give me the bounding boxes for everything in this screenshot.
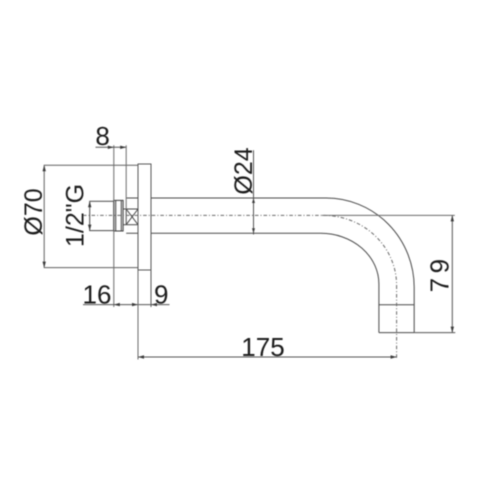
svg-text:Ø70: Ø70 [20,188,48,235]
arrow diam24 top [252,198,255,203]
svg-text:175: 175 [241,332,284,362]
dimension 16/9: dim line [83,304,170,306]
arrow dim16 left [114,303,120,306]
arrow diam70 top [43,165,46,171]
centerline outlet vertical [396,285,398,359]
arrow dim16 right [132,303,138,306]
arrow diam70 bottom [43,262,46,268]
arrow half-inch top [88,201,91,207]
dimension 8: dim line [96,146,127,148]
1/2G threaded nipple [90,201,114,230]
arrow dim175 right [391,355,397,358]
svg-text:8: 8 [95,121,109,151]
centerline bend arc [324,215,397,285]
flange projection box (70mm square outline) [44,165,138,267]
outlet end piece [379,305,414,333]
arrow half-inch bottom [88,225,91,231]
dimension 16/9: extension lines below [150,270,152,307]
arrow dim79 top [451,215,454,221]
dimension 8: extension lines [113,145,115,307]
dimension diam24: dim line [253,150,255,234]
arrow dim8 left [108,146,114,149]
centerline solid extension (79 dim top reference) [322,214,455,216]
spout tube outer line (top) [126,198,414,333]
svg-text:9: 9 [154,279,168,309]
spout tube inner line (bottom) [126,233,379,332]
arrow dim175 left [138,355,144,358]
arrow dim8 right [120,146,126,149]
dimension 175: left extension (plate left continued) [137,270,139,360]
crossed mounting box [123,209,138,225]
svg-text:1/2"G: 1/2"G [61,184,89,247]
svg-text:79: 79 [425,254,455,292]
wall escutcheon plate [138,164,151,270]
dimension 79: dim line [451,215,453,332]
collar ring [114,200,123,231]
svg-text:16: 16 [83,279,112,309]
centerline horizontal [83,214,322,216]
arrow dim9 right [151,303,157,306]
dimension 79: bottom extension [414,332,455,334]
arrow dim79 bottom [451,327,454,333]
arrow diam24 bottom [252,228,255,233]
svg-text:Ø24: Ø24 [230,147,258,194]
arrowheads [43,146,455,359]
dimension 175: dim line [138,356,397,358]
